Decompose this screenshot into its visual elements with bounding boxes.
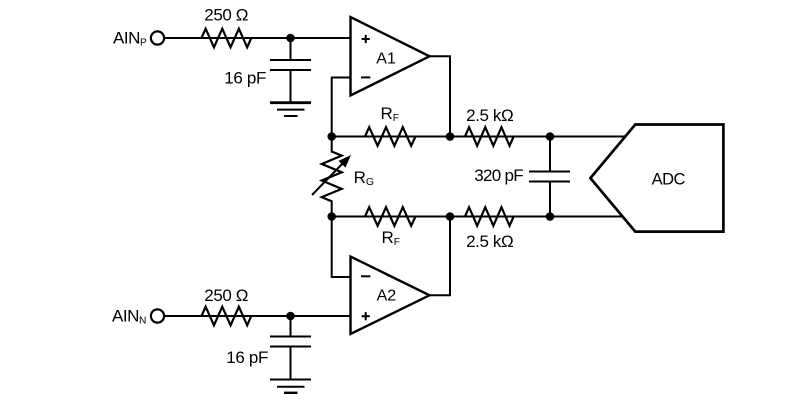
wire 320pF top stub <box>549 136 551 172</box>
node dot top-right <box>546 132 555 141</box>
capacitor C1 16pF top <box>270 60 311 70</box>
node dot A2 plus <box>286 312 295 321</box>
wire A2 minus input <box>332 276 351 278</box>
capacitor 320pF <box>529 172 570 182</box>
node dot bottom-right <box>546 212 555 221</box>
wire 320pF bottom stub <box>549 182 551 218</box>
resistor 2.5k bottom <box>465 207 514 226</box>
wire A1 output <box>428 56 450 137</box>
wire A1 minus input <box>332 77 351 79</box>
RG arrow <box>312 162 344 195</box>
wire A1 feedback vertical <box>331 77 333 138</box>
svg-text:320 pF: 320 pF <box>474 166 523 185</box>
wire top feedback row <box>332 136 631 138</box>
wire A2 minus vertical <box>331 217 333 278</box>
svg-text:ADC: ADC <box>652 170 686 188</box>
wire top input row <box>164 37 351 39</box>
wire C2 top stub <box>290 316 292 337</box>
svg-text:A1: A1 <box>376 50 396 67</box>
svg-text:A2: A2 <box>377 288 397 305</box>
svg-text:2.5 kΩ: 2.5 kΩ <box>466 106 513 125</box>
resistor RF bottom <box>365 207 415 226</box>
input terminal AINN <box>151 309 164 322</box>
ground bottom <box>270 380 311 393</box>
svg-text:16 pF: 16 pF <box>224 69 266 88</box>
node dot bottom-mid <box>446 212 455 221</box>
svg-text:250 Ω: 250 Ω <box>204 6 248 25</box>
node dot top-left <box>327 132 336 141</box>
wire C2 ground stub <box>290 347 292 380</box>
resistor RG (variable) <box>322 152 342 202</box>
resistor 2.5k top <box>465 127 514 146</box>
wire C1 top stub <box>290 38 292 60</box>
resistor 250 ohm top <box>202 29 252 48</box>
svg-text:250 Ω: 250 Ω <box>204 286 248 305</box>
resistor 250 ohm bottom <box>202 307 252 326</box>
resistor RF top <box>365 127 415 146</box>
wire RG bottom stub <box>331 201 333 217</box>
svg-text:2.5 kΩ: 2.5 kΩ <box>466 232 513 251</box>
wire C1 ground stub <box>290 70 292 103</box>
op-amp A2 <box>351 257 430 335</box>
svg-text:16 pF: 16 pF <box>226 348 268 367</box>
wire bottom input row <box>164 315 351 317</box>
ADC block <box>590 125 723 232</box>
node dot top-mid <box>446 132 455 141</box>
wire bottom feedback row <box>332 216 631 218</box>
capacitor C2 16pF bottom <box>270 337 311 347</box>
node dot bottom-left <box>327 212 336 221</box>
wire RG top stub <box>331 137 333 153</box>
node dot A1 plus <box>286 34 295 43</box>
wire A2 output <box>428 216 450 296</box>
input terminal AINP <box>151 31 164 44</box>
ground top <box>270 103 311 116</box>
op-amp A1 <box>351 17 430 96</box>
